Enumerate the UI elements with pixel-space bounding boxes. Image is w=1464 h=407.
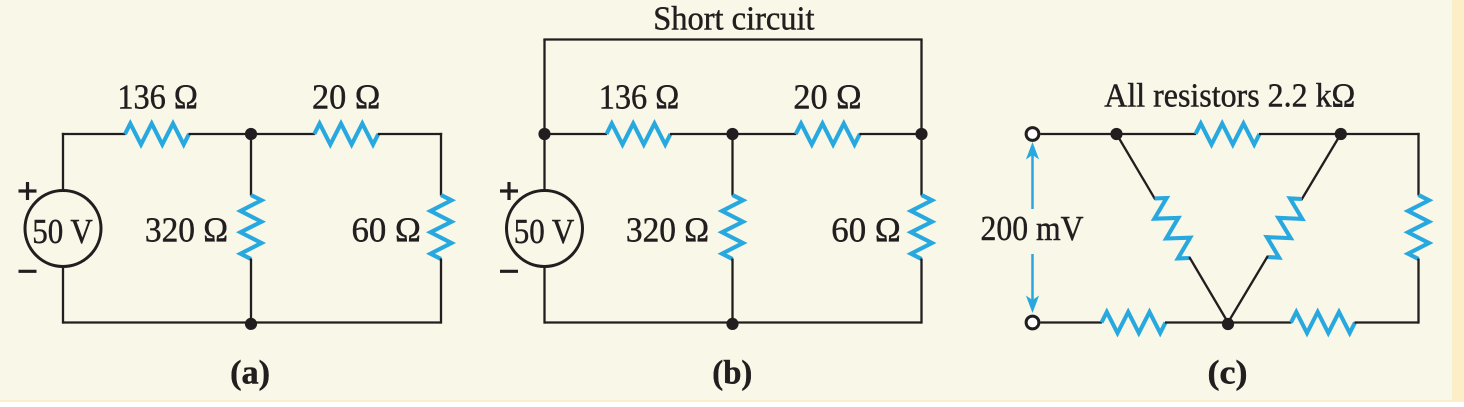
circuit (b) resistor 20 ohm (796, 124, 860, 145)
circuit (b) short-circuit wire right vertical (920, 40, 922, 135)
svg-text:All resistors 2.2 kΩ: All resistors 2.2 kΩ (1104, 78, 1355, 115)
circuit (c) resistor diagonal right (1267, 198, 1302, 257)
circuit (a) plus sign (19, 182, 37, 200)
circuit (b) junction middle node (726, 128, 738, 140)
circuit (c) junction top-right node (1335, 128, 1347, 140)
circuit (c) wire bottom-left segment (1040, 321, 1102, 323)
circuit (a) wire middle upper (250, 134, 252, 196)
circuit (b) wire middle lower (731, 259, 733, 323)
circuit (b) wire middle upper (731, 134, 733, 196)
circuit (b) junction right node (915, 128, 927, 140)
circuit (a) minus sign (19, 270, 37, 273)
circuit (b) minus sign (500, 270, 518, 273)
svg-text:20 Ω: 20 Ω (793, 79, 861, 117)
circuit (c) junction bottom node (1222, 318, 1234, 330)
svg-text:200 mV: 200 mV (981, 210, 1084, 248)
circuit (c) resistor bottom-right (1291, 312, 1355, 333)
circuit (a) wire top-middle segment (189, 133, 315, 135)
circuit (c) resistor diagonal left (1154, 198, 1190, 258)
circuit (b) short-circuit wire left vertical (543, 40, 545, 135)
circuit (b) resistor 320 ohm (722, 195, 743, 259)
circuit (b) wire top-left segment (545, 133, 608, 135)
svg-text:136 Ω: 136 Ω (117, 79, 198, 117)
circuit (a) wire top-right segment (378, 133, 442, 135)
circuit (a) wire middle lower (250, 259, 252, 323)
circuit (a) resistor 60 ohm (431, 195, 452, 259)
svg-text:60 Ω: 60 Ω (831, 211, 900, 249)
circuit (b) wire top-middle segment (670, 133, 796, 135)
circuit (b) wire left lower (543, 265, 545, 324)
circuit (c) wire right upper (1417, 133, 1419, 196)
page edge band right (1452, 0, 1464, 402)
page edge band bottom (0, 400, 1464, 402)
svg-text:136 Ω: 136 Ω (599, 79, 680, 117)
circuit (c) junction top-left node (1110, 128, 1122, 140)
circuit (b) resistor 60 ohm (911, 195, 932, 259)
circuit (a) resistor 136 ohm (125, 124, 189, 145)
circuit (b) junction left node (538, 128, 550, 140)
circuit (a) wire left lower (62, 265, 64, 324)
circuit (b) wire top-right segment (859, 133, 921, 135)
circuit (a) junction top node (245, 128, 257, 140)
svg-text:320 Ω: 320 Ω (145, 211, 228, 249)
circuit (a) resistor 20 ohm (314, 124, 378, 145)
svg-text:(a): (a) (230, 355, 270, 392)
circuit (c) wire diagonal right lower (1228, 256, 1268, 323)
circuit (c) wire bottom-middle segment (1165, 321, 1292, 323)
svg-text:20 Ω: 20 Ω (312, 79, 380, 117)
circuit (c) wire bottom-right segment (1355, 321, 1419, 323)
svg-text:(c): (c) (1208, 355, 1248, 392)
circuit (a) wire left upper (62, 133, 64, 192)
circuit (c) wire right lower (1417, 259, 1419, 324)
svg-text:Short circuit: Short circuit (653, 0, 815, 37)
circuit (c) resistor top (1196, 124, 1260, 145)
circuit (b) short-circuit wire top (543, 38, 922, 40)
circuit (a) wire top-left segment (62, 133, 126, 135)
circuit (b) resistor 136 ohm (607, 124, 671, 145)
circuit (c) wire top-left segment (1040, 133, 1196, 135)
circuit (a) wire right upper (440, 133, 442, 196)
circuit (c) voltage arrow 200 mV (1026, 142, 1039, 313)
circuit (c) wire diagonal right upper (1301, 134, 1341, 200)
circuit (a) wire right lower (440, 259, 442, 324)
circuit (c) wire diagonal left upper (1117, 134, 1156, 199)
circuit (c) resistor bottom-left (1102, 312, 1166, 333)
circuit (c) resistor right (1408, 195, 1429, 259)
circuit (a) resistor 320 ohm (241, 195, 262, 259)
circuit (b) wire right upper (920, 134, 922, 196)
circuit (b) plus sign (500, 182, 518, 200)
svg-text:50 V: 50 V (32, 213, 93, 251)
circuit (b) wire bottom (545, 321, 922, 323)
circuit (b) wire left upper (543, 134, 545, 192)
circuit (b) wire right lower (920, 259, 922, 324)
circuit (a) voltage source 50 V (25, 191, 101, 267)
svg-text:320 Ω: 320 Ω (626, 211, 709, 249)
svg-text:(b): (b) (712, 355, 752, 392)
circuit (b) junction bottom node (726, 318, 738, 330)
circuit (c) wire diagonal left lower (1189, 257, 1228, 323)
circuit (a) wire bottom (63, 321, 441, 323)
circuit (b) voltage source 50 V (507, 191, 583, 267)
svg-text:50 V: 50 V (514, 213, 575, 251)
svg-text:60 Ω: 60 Ω (352, 211, 421, 249)
circuit (a) junction bottom node (245, 318, 257, 330)
circuit (c) wire top-right segment (1259, 133, 1420, 135)
circuit (c) terminal bottom (1026, 316, 1039, 329)
circuit (c) terminal top (1026, 128, 1039, 141)
